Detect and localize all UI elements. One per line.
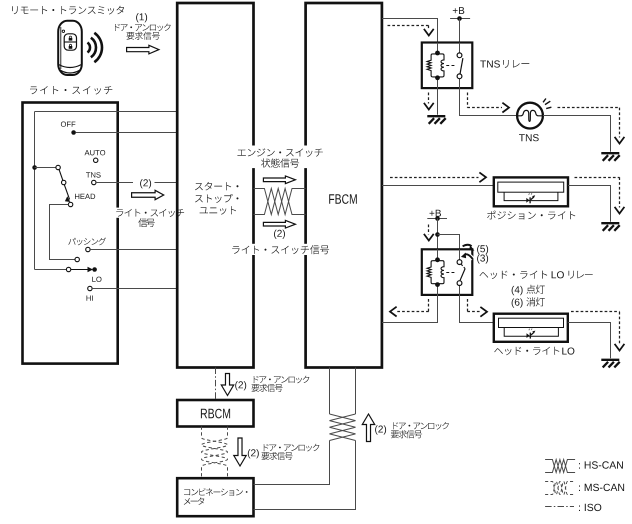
signal arrow (2) door unlock down 1 bbox=[221, 374, 233, 396]
wire TNS segment bbox=[96, 182, 133, 184]
label HI bbox=[87, 296, 93, 301]
label TNS bulb bbox=[519, 134, 539, 141]
flow dashed +B headlight bbox=[424, 225, 434, 241]
RBCM box bbox=[177, 400, 253, 427]
label スタート・ストップ・ユニット bbox=[195, 182, 239, 215]
signal arrow (2) door unlock down 2 bbox=[234, 438, 246, 466]
ISO wire unit to RBCM bbox=[215, 368, 217, 401]
wire +B TNS bar bbox=[450, 18, 470, 20]
flow dashed TNS contact bbox=[467, 93, 509, 113]
wire TNS segment b bbox=[155, 182, 178, 184]
label OFF bbox=[61, 122, 76, 127]
wire pivot stub bbox=[35, 167, 56, 169]
wire headlight coil to FBCM bbox=[382, 295, 438, 323]
junction pivot bbox=[32, 165, 37, 170]
legend HS-CAN symbol bbox=[545, 460, 575, 473]
label (2) light switch bbox=[140, 179, 151, 188]
label (2) fbcm bbox=[375, 425, 386, 434]
label door unlock meter bbox=[261, 444, 319, 460]
label エンジン・スイッチ状態信号 bbox=[234, 146, 327, 169]
label TNS bbox=[86, 172, 101, 177]
label ライト・スイッチ bbox=[30, 86, 112, 94]
wire TNS bulb to ground bbox=[543, 116, 611, 152]
wire +B to contact bbox=[459, 19, 461, 43]
contact HI bbox=[88, 286, 92, 290]
junction +B headlight bbox=[435, 216, 440, 221]
TNS bulb bbox=[517, 103, 543, 129]
wire headlight LO to ground bbox=[568, 323, 611, 359]
wire passing to unit bbox=[90, 249, 177, 251]
switch arm LO bbox=[71, 267, 93, 272]
label (5) bbox=[477, 245, 488, 254]
ground position light bbox=[601, 223, 619, 231]
label (1) bbox=[136, 13, 147, 22]
wire FBCM to position light bbox=[382, 185, 494, 187]
wire +B headlight bar bbox=[427, 218, 447, 220]
signal arrow (2) door unlock up bbox=[362, 414, 374, 442]
wire HI to unit bbox=[92, 288, 177, 290]
start-stop unit box bbox=[177, 3, 253, 368]
label door unlock fbcm bbox=[391, 422, 449, 438]
contact TNS bbox=[92, 180, 96, 184]
rotation arrows (5)(3) bbox=[461, 245, 475, 259]
label パッシング bbox=[68, 238, 106, 246]
label door unlock rbcm bbox=[251, 376, 309, 392]
label RBCM bbox=[201, 409, 230, 419]
legend MS-CAN label bbox=[579, 484, 624, 491]
label FBCM bbox=[329, 194, 357, 204]
wire headlight contact to light bbox=[460, 295, 494, 323]
headlight LO unit bbox=[494, 314, 568, 342]
flow dashed headlight contact bbox=[467, 299, 487, 317]
flow dashed FBCM to position light bbox=[390, 172, 486, 182]
HS-CAN twisted pair FBCM-meter bbox=[254, 368, 356, 510]
label ヘッド・ライトLO bbox=[494, 347, 574, 355]
combination meter box bbox=[177, 478, 253, 516]
light switch box bbox=[23, 103, 118, 364]
flow dashed headlight to ground bbox=[571, 312, 624, 351]
flow dashed TNS coil ground bbox=[424, 93, 434, 110]
switch arm bbox=[59, 169, 63, 181]
label +B headlight bbox=[430, 210, 442, 217]
label HEAD bbox=[75, 194, 95, 199]
legend ISO symbol bbox=[545, 506, 574, 508]
switch arm lower bbox=[64, 185, 70, 202]
label (2) middle bbox=[274, 230, 285, 239]
wire TNS contact to bulb bbox=[460, 88, 518, 115]
label (4) 点灯 bbox=[512, 285, 545, 296]
contact LO arm bbox=[66, 267, 70, 271]
contact HEAD bbox=[68, 202, 72, 206]
wire rail vertical bbox=[34, 112, 36, 270]
label TNSリレー bbox=[480, 60, 529, 68]
legend MS-CAN symbol bbox=[545, 482, 575, 495]
label リモート・トランスミッタ bbox=[12, 6, 124, 15]
wire TNS coil to ground bbox=[437, 88, 439, 115]
HS-CAN twisted pair unit-FBCM bbox=[254, 189, 306, 215]
label (6) 消灯 bbox=[512, 297, 545, 308]
flow dashed TNS to ground bbox=[558, 108, 625, 144]
light rays TNS bbox=[543, 99, 551, 109]
ground TNS relay bbox=[427, 116, 445, 124]
junction +B TNS bbox=[457, 16, 462, 21]
wire OFF to unit bbox=[76, 132, 178, 134]
signal arrow (2) light switch bbox=[132, 190, 164, 199]
contact LO bbox=[92, 267, 97, 272]
legend ISO label bbox=[579, 504, 601, 511]
radio wave arcs bbox=[87, 33, 102, 62]
wire +B branch to contact bbox=[438, 235, 460, 250]
signal arrow engine switch state bbox=[263, 176, 295, 184]
contact arm middle bbox=[62, 180, 66, 184]
TNS relay bbox=[422, 43, 473, 89]
label ドア・アンロック要求信号 (1) bbox=[115, 24, 171, 40]
contact arm upper bbox=[56, 165, 60, 169]
label +B TNS bbox=[453, 7, 465, 14]
legend HS-CAN label bbox=[579, 461, 623, 468]
contact head-link bbox=[75, 257, 79, 261]
MS-CAN twisted pair RBCM-meter bbox=[202, 427, 228, 479]
flow dashed headlight coil to FBCM bbox=[390, 299, 429, 317]
wire FBCM to TNS relay coil bbox=[382, 19, 438, 43]
ground TNS bulb bbox=[601, 153, 619, 161]
wire LO stub bbox=[35, 269, 67, 271]
FBCM box bbox=[306, 3, 382, 368]
signal arrow (2) light switch signal bbox=[263, 220, 295, 228]
headlight LO relay bbox=[422, 249, 473, 295]
label ライト・スイッチ信号 left bbox=[113, 208, 186, 228]
contact OFF bbox=[71, 130, 76, 135]
label ライト・スイッチ信号 middle bbox=[229, 244, 332, 255]
wire rail top bbox=[35, 111, 177, 113]
label ポジション・ライト bbox=[487, 211, 575, 220]
contact AUTO bbox=[94, 158, 98, 162]
label LO bbox=[92, 277, 101, 282]
wire position light to ground bbox=[568, 186, 611, 222]
position light unit bbox=[494, 177, 568, 206]
label AUTO bbox=[85, 150, 106, 155]
wire +B down bbox=[437, 219, 439, 250]
wire HEAD elbow bbox=[50, 205, 75, 260]
contact passing bbox=[86, 247, 90, 251]
label (2) rbcm bbox=[235, 381, 246, 390]
label ヘッド・ライトLOリレー bbox=[480, 271, 593, 279]
ground headlight LO bbox=[601, 360, 619, 368]
signal arrow (1) door unlock bbox=[127, 45, 159, 54]
remote transmitter key fob icon bbox=[58, 21, 82, 75]
junction +B branch bbox=[435, 232, 440, 237]
label (3) bbox=[477, 254, 488, 263]
flow dashed FBCM to TNS relay bbox=[388, 25, 434, 35]
flow dashed position light to ground bbox=[575, 177, 625, 213]
label コンビネーション・メータ bbox=[184, 488, 248, 505]
label (2) meter bbox=[248, 449, 259, 458]
